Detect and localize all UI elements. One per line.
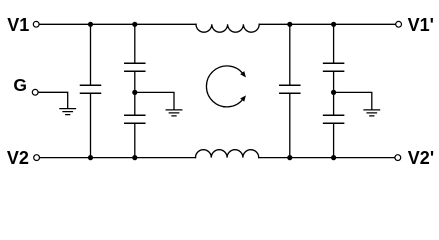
terminal V1' [396, 21, 402, 27]
capacitor C6 [324, 115, 344, 123]
coupling arrow head bottom [241, 96, 245, 101]
junction bottom rail / C1 [88, 155, 93, 160]
svg-text:V2: V2 [7, 148, 29, 168]
wire bottom-right rail [259, 157, 395, 159]
coupling arrow head top [241, 72, 245, 77]
capacitor C1 [81, 85, 101, 93]
junction top rail / C5 [331, 22, 336, 27]
wire C5-C6 mid stem [333, 71, 335, 115]
wire top-right rail [259, 23, 395, 25]
junction C2/C3 node [132, 90, 137, 95]
wire G to ground [38, 92, 67, 108]
wire C4 top stem [289, 24, 291, 85]
wire C1 top stem [90, 24, 92, 85]
inductor L2 [196, 150, 259, 158]
wire top-left rail [39, 23, 196, 25]
capacitor C2 [125, 63, 145, 71]
ground (right middle) [364, 110, 380, 116]
terminal V2' [395, 155, 401, 161]
wire mid node to left-middle ground [135, 92, 174, 109]
junction bottom rail / C6 [331, 155, 336, 160]
ground (left middle) [166, 110, 182, 116]
terminal V2 [34, 155, 40, 161]
junction bottom rail / C3 [132, 155, 137, 160]
junction C5/C6 node [331, 90, 336, 95]
wire C6 bottom stem [333, 123, 335, 157]
junction bottom rail / C4 [287, 155, 292, 160]
junction top rail / C2 [132, 22, 137, 27]
wire mid node to right-middle ground [334, 92, 372, 109]
svg-text:V1: V1 [7, 15, 29, 35]
svg-text:V2': V2' [408, 148, 434, 168]
junction top rail / C1 [88, 22, 93, 27]
wire C2 top stem [134, 24, 136, 63]
wire bottom-left rail [40, 157, 196, 159]
wire C3 bottom stem [134, 123, 136, 157]
wire C2-C3 mid stem [134, 71, 136, 115]
svg-text:V1': V1' [408, 15, 434, 35]
svg-text:G: G [13, 75, 27, 95]
terminal V1 [33, 21, 39, 27]
capacitor C3 [125, 115, 145, 123]
inductor L1 [196, 24, 259, 32]
wire C5 top stem [333, 24, 335, 63]
wire C1 bottom stem [90, 93, 92, 157]
capacitor C5 [324, 63, 344, 71]
junction top rail / C4 [287, 22, 292, 27]
ground (G terminal) [60, 109, 76, 115]
wire C4 bottom stem [289, 93, 291, 157]
capacitor C4 [280, 85, 300, 93]
coupling arrow arc [206, 66, 243, 107]
terminal G [32, 89, 38, 95]
